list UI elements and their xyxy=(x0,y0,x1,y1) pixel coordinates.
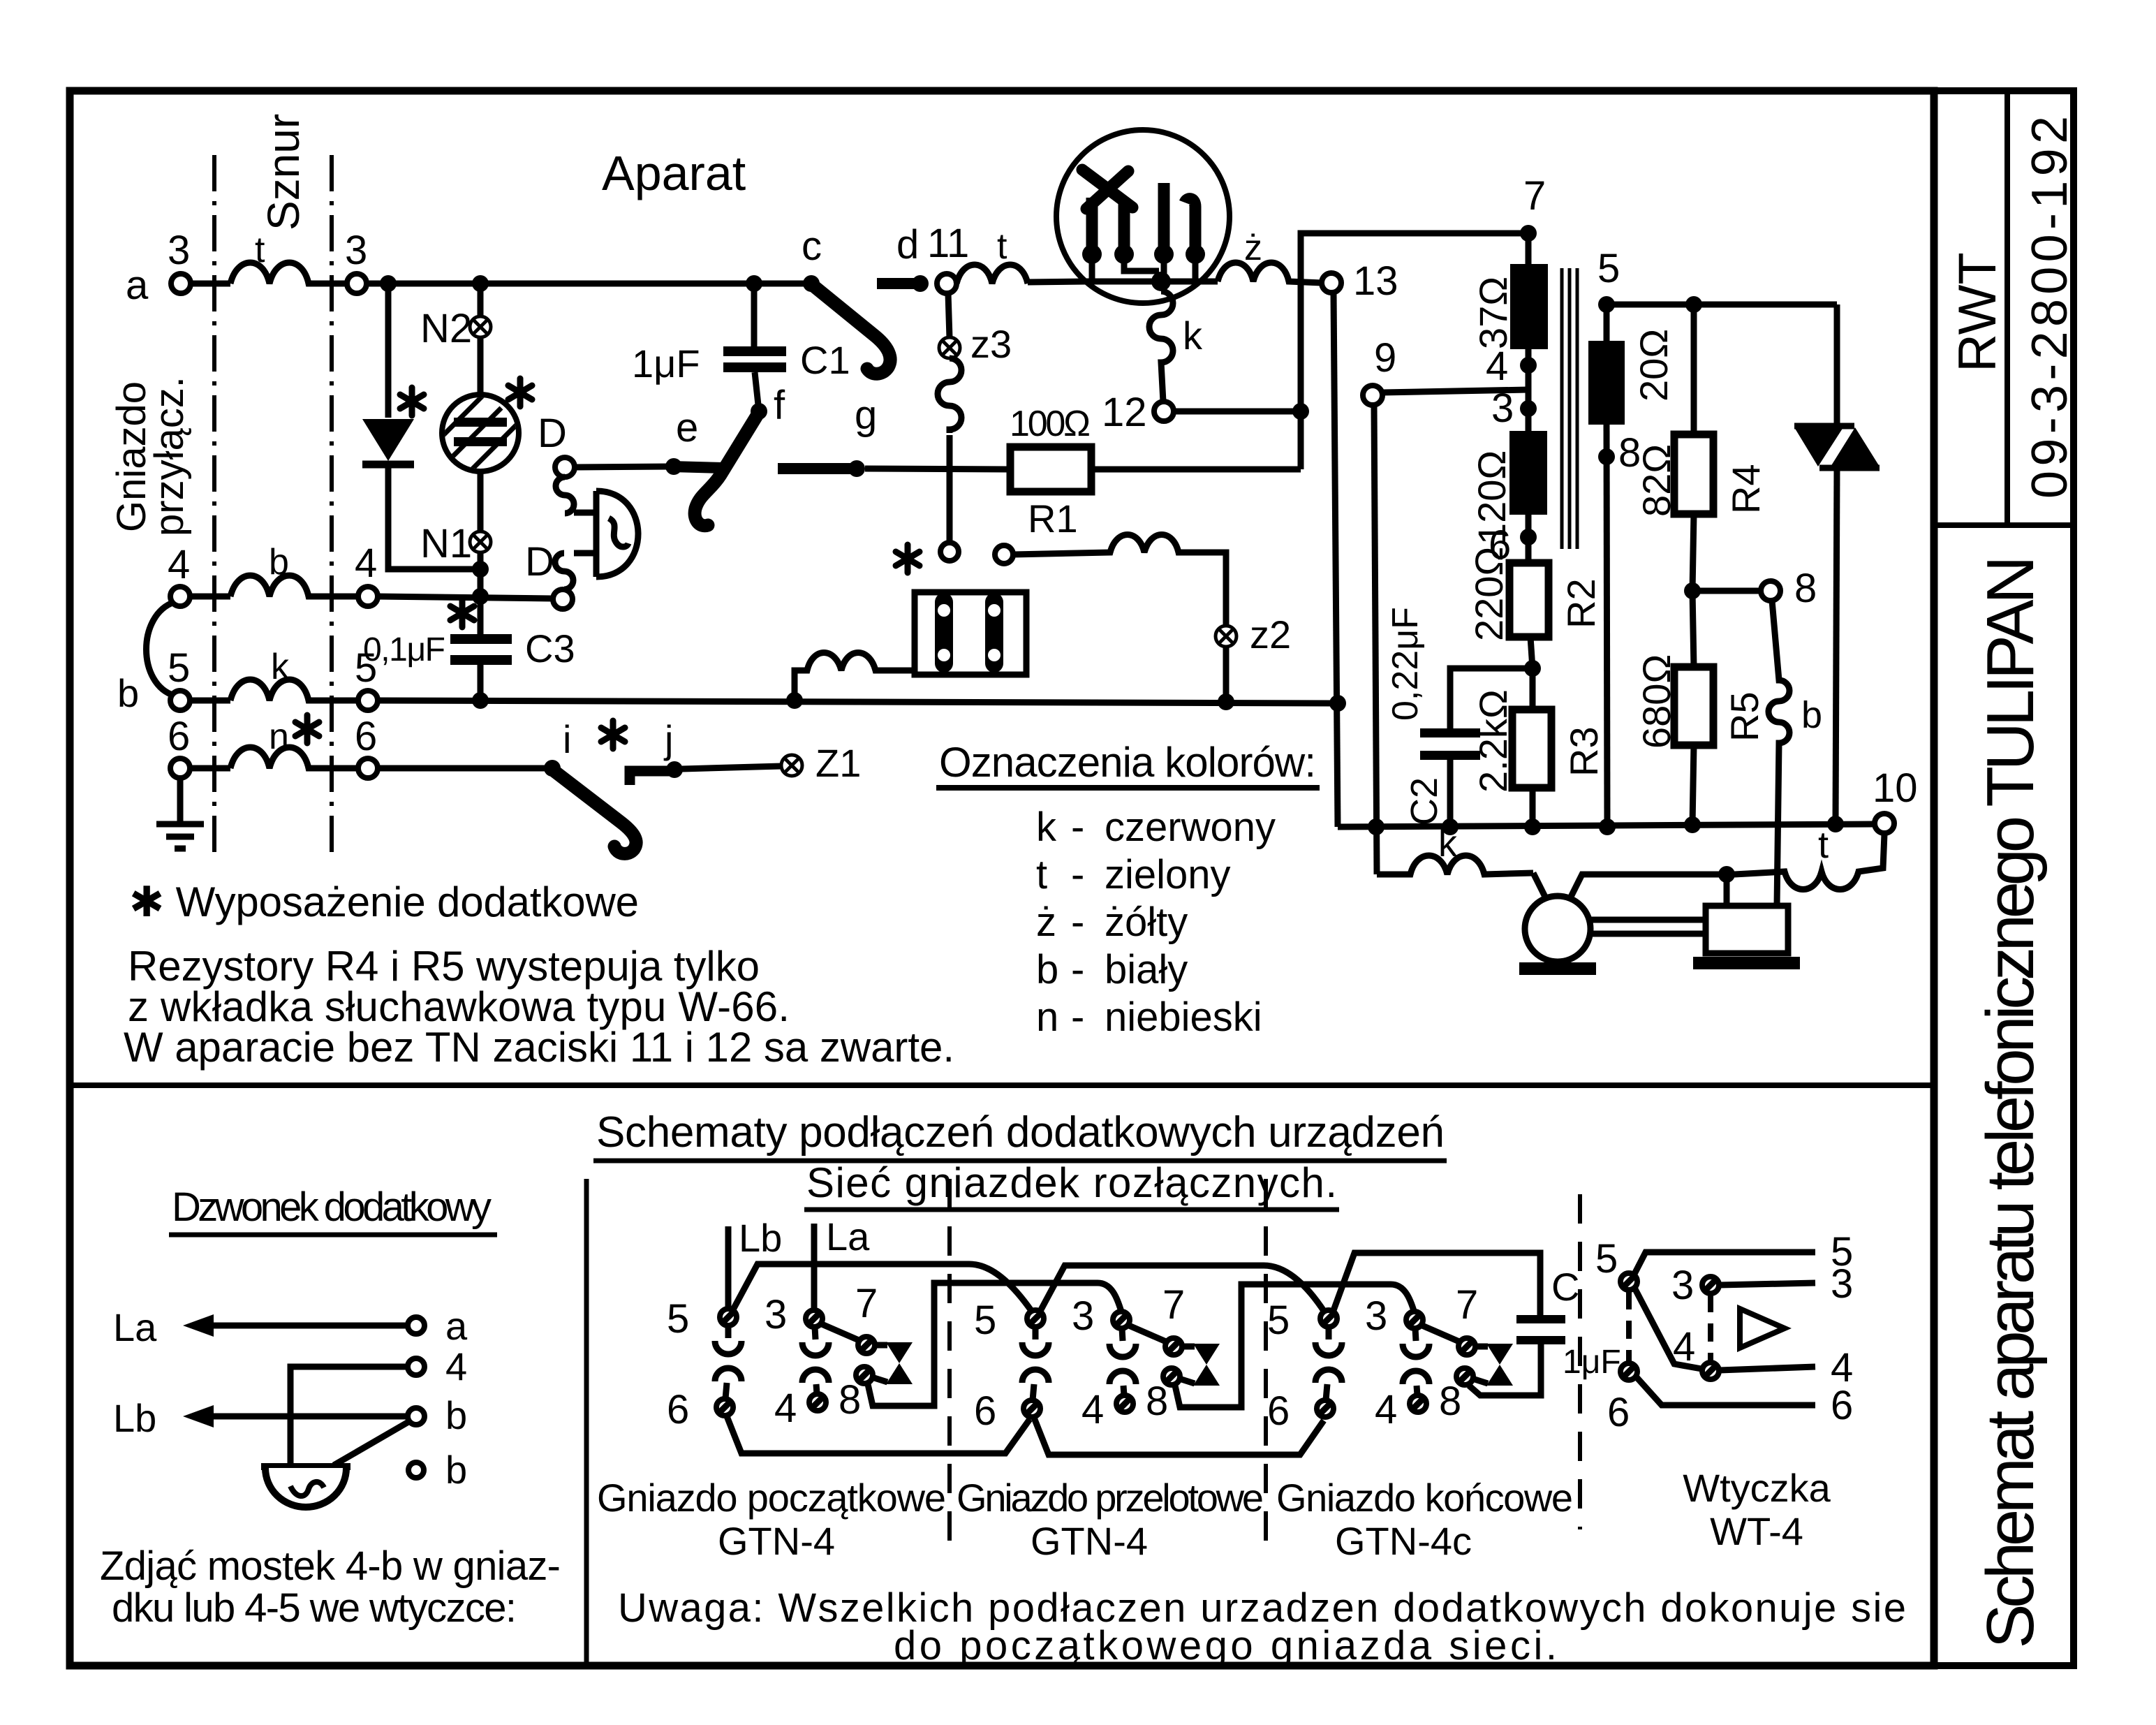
svg-text:t: t xyxy=(255,230,265,270)
title block outer box xyxy=(1934,91,2074,1666)
resistor 20 ohm (secondary winding) xyxy=(1604,304,1610,341)
svg-text:Gniazdo początkowe: Gniazdo początkowe xyxy=(597,1476,946,1520)
plug link 3-4 (dashed) xyxy=(1708,1294,1713,1362)
terminal 9 xyxy=(1363,386,1382,405)
coil squiggle upper D xyxy=(556,477,574,513)
wire R2 to junction xyxy=(1530,637,1533,668)
contact bar d xyxy=(877,278,919,289)
svg-text:3: 3 xyxy=(1491,386,1514,431)
svg-text:37Ω: 37Ω xyxy=(1471,277,1515,349)
svg-text:Wtyczka: Wtyczka xyxy=(1683,1466,1831,1510)
rotary dial circle xyxy=(1056,130,1230,303)
svg-text:8: 8 xyxy=(1794,566,1817,611)
svg-text:z wkładka słuchawkowa typu: z wkładka słuchawkowa typu W-66. xyxy=(128,983,790,1030)
cord squiggle n (row 6) xyxy=(230,747,358,768)
svg-text:b: b xyxy=(269,542,289,582)
node dot N2 branch xyxy=(472,275,489,292)
svg-text:WT-4: WT-4 xyxy=(1710,1509,1803,1553)
svg-text:0,22μF: 0,22μF xyxy=(1385,607,1426,721)
svg-text:100Ω: 100Ω xyxy=(1010,404,1091,444)
section divider xyxy=(70,1082,1934,1088)
wire 12 to node xyxy=(1174,409,1301,415)
diode (wire down) xyxy=(385,284,392,418)
cord squiggle t (to dial) xyxy=(957,265,1028,284)
bottom bus socket2 to socket3 xyxy=(1034,1418,1324,1455)
wire through dial xyxy=(1086,279,1218,285)
svg-text:c: c xyxy=(802,223,822,269)
junction dot row4 cross xyxy=(472,588,489,605)
wire microphone right to t-node xyxy=(1569,874,1719,901)
plug wire 5 xyxy=(1634,1252,1815,1275)
junction 4 xyxy=(1526,349,1532,409)
resistor 120 ohm (winding) xyxy=(1526,409,1532,431)
svg-text:4: 4 xyxy=(1486,344,1508,389)
neon asterisk xyxy=(508,379,532,406)
secondary node 5 xyxy=(1598,296,1615,313)
svg-text:7: 7 xyxy=(1523,173,1546,219)
coil squiggle Z3 xyxy=(938,358,961,433)
plug terminal 3 xyxy=(1702,1277,1719,1293)
resistor R2 220 ohm xyxy=(1509,563,1549,637)
terminal b spare xyxy=(408,1462,424,1478)
capacitor C1 xyxy=(751,284,758,346)
svg-text:5: 5 xyxy=(355,645,377,691)
row 5: terminal left xyxy=(170,691,190,710)
svg-text:5: 5 xyxy=(1597,246,1620,291)
svg-text:Gniazdo końcowe: Gniazdo końcowe xyxy=(1276,1476,1573,1520)
wire D to e xyxy=(575,467,669,467)
transformer core lines xyxy=(1560,268,1564,549)
wire contact to Z2 xyxy=(1013,535,1226,626)
svg-text:R2: R2 xyxy=(1559,578,1603,629)
k wire with squiggle to mic xyxy=(1377,856,1533,874)
neon lamp (hatched circle) xyxy=(431,390,532,489)
terminal 12 xyxy=(1154,402,1174,421)
diode triangle xyxy=(362,419,414,461)
svg-text:Z1: Z1 xyxy=(815,741,861,785)
switch i lever with hook xyxy=(555,772,636,853)
svg-text:R1: R1 xyxy=(1028,497,1078,541)
svg-text:La: La xyxy=(113,1305,157,1349)
svg-text:220Ω: 220Ω xyxy=(1467,547,1511,641)
switch f lever with hook xyxy=(695,413,758,526)
transformer contact asterisk xyxy=(896,545,920,573)
svg-text:n: n xyxy=(269,717,289,757)
node bus (k-node) xyxy=(1338,824,1876,827)
svg-text:D: D xyxy=(525,539,554,585)
svg-text:R5: R5 xyxy=(1722,691,1766,742)
svg-text:3: 3 xyxy=(345,228,367,273)
receiver terminal D lower xyxy=(553,589,573,609)
capacitor C3 xyxy=(450,634,512,644)
svg-text:D: D xyxy=(538,411,567,456)
svg-text:j: j xyxy=(663,717,673,761)
svg-text:Zdjąć mostek 4-b w gniaz-: Zdjąć mostek 4-b w gniaz- xyxy=(100,1543,561,1589)
svg-text:11: 11 xyxy=(927,221,969,266)
svg-text:do początkowego gniazda sieci.: do początkowego gniazda sieci. xyxy=(894,1623,1557,1668)
svg-text:Dzwonek dodatkowy: Dzwonek dodatkowy xyxy=(172,1184,492,1230)
contact bar e xyxy=(672,467,723,468)
bell xyxy=(261,1463,350,1470)
junction 8 (secondary) xyxy=(1607,425,1607,827)
wire Z3 to transformer contact xyxy=(947,435,953,542)
resistor R1 xyxy=(1010,447,1091,492)
dial contact bar 3 xyxy=(1158,183,1170,249)
plug WT-4: terminal 5 xyxy=(1620,1273,1637,1290)
svg-text:N2: N2 xyxy=(420,306,472,351)
svg-text:C1: C1 xyxy=(800,338,850,382)
dash-dot separator line left xyxy=(212,155,216,853)
svg-text:b: b xyxy=(1801,694,1822,736)
svg-text:Aparat: Aparat xyxy=(602,146,746,200)
svg-text:4: 4 xyxy=(168,542,190,587)
coil squiggle k (dial to 12) xyxy=(1149,291,1173,402)
svg-text:09-3-2800-192: 09-3-2800-192 xyxy=(2022,116,2078,499)
svg-text:k: k xyxy=(1183,314,1203,358)
svg-text:12: 12 xyxy=(1102,390,1147,435)
terminal 8 xyxy=(1761,581,1780,601)
wire b to bell xyxy=(334,1422,408,1465)
plug wire 3 xyxy=(1720,1283,1815,1285)
svg-text:Oznaczenia kolorów:: Oznaczenia kolorów: xyxy=(939,739,1316,786)
svg-text:Schematy podłączeń dodatkowych: Schematy podłączeń dodatkowych urządzeń xyxy=(596,1108,1445,1157)
bridge arc 4-5 (external strap) xyxy=(147,602,175,696)
bus row 5 xyxy=(378,700,1338,703)
svg-text:k: k xyxy=(271,647,290,687)
top bus socket2 to socket3 xyxy=(1040,1265,1325,1313)
dial legs to wire xyxy=(1092,260,1195,281)
terminal 6 right xyxy=(358,758,378,778)
svg-text:Gniazdo przelotowe: Gniazdo przelotowe xyxy=(957,1476,1264,1520)
resistor R4 82 ohm xyxy=(1691,304,1697,434)
svg-text:5: 5 xyxy=(1595,1236,1618,1282)
arrow Lb xyxy=(202,1414,406,1420)
wire row 6 to switch i xyxy=(378,765,552,772)
title block divider vertical xyxy=(2004,91,2010,525)
wire 9 down across bus to k-wire xyxy=(1374,405,1377,874)
svg-text:Schemat aparatu telefonicznego: Schemat aparatu telefonicznego TULIPAN xyxy=(1973,555,2048,1648)
cord squiggle b (terminal 8 down) xyxy=(1769,601,1789,906)
contact bar j xyxy=(630,771,676,785)
mid wire socket2-8 to socket3-3 xyxy=(1175,1284,1415,1407)
svg-text:GTN-4: GTN-4 xyxy=(718,1519,835,1563)
socket 1 GTN-4 xyxy=(667,1281,913,1432)
wire 9 to resistor chain xyxy=(1382,390,1528,392)
svg-text:C: C xyxy=(1551,1265,1579,1309)
wire 4 to bell xyxy=(290,1367,408,1465)
capacitor C (socket 3) xyxy=(1516,1315,1565,1323)
svg-text:Sieć gniazdek rozłącznych.: Sieć gniazdek rozłącznych. xyxy=(806,1159,1337,1206)
junction 6 xyxy=(1526,515,1532,563)
svg-text:R3: R3 xyxy=(1562,726,1606,777)
svg-text:4: 4 xyxy=(355,541,377,586)
svg-text:W aparacie bez TN zaciski 1: W aparacie bez TN zaciski 11 i 12 sa zwa… xyxy=(124,1024,954,1071)
svg-text:z3: z3 xyxy=(970,322,1012,366)
svg-text:1μF: 1μF xyxy=(1563,1344,1621,1381)
capacitor C2 xyxy=(1450,668,1533,728)
wire node5 to varistor branch xyxy=(1607,302,1837,308)
dashed separator socket 3/plug xyxy=(1578,1194,1582,1529)
svg-text:a: a xyxy=(126,263,149,308)
wire C3 to row5 xyxy=(478,665,484,700)
wire Z2 to bus5 xyxy=(1223,647,1230,702)
mid wire socket1-8 to socket2-3 xyxy=(868,1283,1121,1406)
node line (R1/12/7) xyxy=(1301,233,1528,469)
plug wire 6 xyxy=(1637,1377,1815,1405)
terminal 3 (socket side) xyxy=(171,274,191,293)
svg-text:t: t xyxy=(997,226,1007,267)
svg-text:82Ω: 82Ω xyxy=(1634,444,1678,517)
svg-text:RWT: RWT xyxy=(1948,252,2007,372)
microphone xyxy=(1525,896,1590,962)
terminal 4 (dzwonek) xyxy=(408,1358,424,1375)
socket3 riser to capacitor C xyxy=(1333,1253,1540,1315)
dial pulse contacts (X symbol with legs) xyxy=(1082,170,1132,209)
terminal 10 xyxy=(1875,814,1894,833)
wire into dial xyxy=(1028,281,1086,282)
dial contact bar 4 (hooked) xyxy=(1185,199,1195,249)
wire 13 down to bus xyxy=(1334,293,1338,827)
plug terminal 6 xyxy=(1620,1363,1637,1380)
svg-text:ż: ż xyxy=(1244,228,1262,268)
wire row a xyxy=(191,281,230,287)
diode bar xyxy=(362,461,414,469)
varistor branch xyxy=(1834,304,1840,427)
svg-text:3: 3 xyxy=(1671,1263,1694,1308)
svg-text:t: t xyxy=(1818,824,1829,866)
svg-text:Rezystory R4 i R5 wystepuja: Rezystory R4 i R5 wystepuja tylko xyxy=(128,943,760,990)
stub t-node to receiver xyxy=(1724,874,1730,906)
resistor R5 680 ohm xyxy=(1692,591,1694,667)
wire j to Z1 xyxy=(682,766,781,769)
svg-text:b: b xyxy=(117,671,139,715)
svg-text:g: g xyxy=(855,392,877,438)
junction 3 xyxy=(1520,400,1537,417)
wire to microphone left xyxy=(1533,873,1547,901)
svg-text:z2: z2 xyxy=(1250,612,1291,656)
svg-text:3: 3 xyxy=(168,228,190,273)
svg-text:Lb: Lb xyxy=(113,1396,156,1440)
capacitor C to terminal 8 wire xyxy=(1469,1344,1541,1395)
cord squiggle k (row 5) xyxy=(230,680,358,700)
svg-text:2.2kΩ: 2.2kΩ xyxy=(1471,689,1515,793)
svg-text:a: a xyxy=(445,1304,468,1348)
wire junction to terminal 8 xyxy=(1692,588,1761,594)
handset bar (double line) xyxy=(1590,917,1706,923)
svg-text:Sznur: Sznur xyxy=(258,114,309,230)
svg-text:6: 6 xyxy=(1607,1390,1630,1435)
wire diode to junction xyxy=(388,464,480,569)
contact bar g xyxy=(778,463,857,474)
svg-text:R4: R4 xyxy=(1724,464,1768,514)
transformer contact circle left xyxy=(940,543,959,561)
svg-text:C2: C2 xyxy=(1403,777,1445,825)
lamp Z3 xyxy=(948,293,950,338)
dashed separator socket 2/3 xyxy=(1264,1179,1268,1547)
svg-text:b: b xyxy=(445,1448,467,1492)
node dot C1 branch xyxy=(746,275,762,292)
lamp Z2 xyxy=(1216,626,1236,647)
terminal a xyxy=(408,1317,424,1334)
wire row 4 to D xyxy=(378,596,553,599)
plug terminal 4 xyxy=(1702,1363,1719,1379)
svg-text:Lb: Lb xyxy=(739,1216,782,1260)
svg-text:3: 3 xyxy=(1831,1261,1853,1307)
terminal 5 right xyxy=(358,691,378,710)
receiver capsule xyxy=(1706,906,1788,953)
bottom bus socket1 to socket2 xyxy=(727,1416,1030,1453)
wire R4 to junction xyxy=(1692,514,1694,591)
row 6: terminal left xyxy=(170,758,190,778)
svg-text:6: 6 xyxy=(1831,1383,1853,1428)
svg-text:20Ω: 20Ω xyxy=(1632,329,1676,402)
lamp Z1 xyxy=(781,755,802,776)
terminal 4 right xyxy=(358,587,378,606)
node dot diode branch xyxy=(380,275,397,292)
svg-text:przyłącz.: przyłącz. xyxy=(147,376,192,536)
svg-text:1μF: 1μF xyxy=(632,342,700,386)
winding 2 xyxy=(985,602,1003,663)
svg-text:13: 13 xyxy=(1353,258,1398,304)
terminal 13 xyxy=(1322,273,1341,293)
svg-text:C3: C3 xyxy=(525,626,575,670)
svg-text:e: e xyxy=(676,405,698,450)
svg-text:dku lub 4-5 we wtyczce:: dku lub 4-5 we wtyczce: xyxy=(112,1585,517,1631)
svg-text:10: 10 xyxy=(1873,765,1918,811)
cord squiggle z (dial to 13) xyxy=(1218,263,1322,283)
svg-text:6: 6 xyxy=(168,714,190,759)
svg-text:d: d xyxy=(896,222,919,267)
bottom vertical divider xyxy=(584,1179,589,1666)
switch c lever with hook xyxy=(814,286,890,374)
terminal b xyxy=(408,1408,424,1425)
wire La (network) xyxy=(811,1224,818,1310)
wire N1 down through row4 to C3 xyxy=(478,552,484,634)
winding squiggle to bus5 xyxy=(795,653,915,701)
terminal 3 (aparat side) xyxy=(347,274,367,293)
svg-text:6: 6 xyxy=(355,714,377,759)
svg-text:k-czerwony: k-czerwony xyxy=(1036,805,1276,850)
varistor symbol xyxy=(1794,427,1843,467)
plug triangle xyxy=(1740,1309,1785,1348)
receiver earpiece xyxy=(574,491,638,577)
transformer contact circle right xyxy=(995,545,1013,564)
wire row a to switch c xyxy=(367,281,811,287)
svg-text:680Ω: 680Ω xyxy=(1634,654,1678,749)
lamp N2 xyxy=(478,284,484,316)
svg-text:i: i xyxy=(563,717,571,761)
plug link 5-6 (dashed) xyxy=(1626,1291,1632,1362)
wire N2 to neon xyxy=(478,337,484,397)
svg-text:La: La xyxy=(826,1214,870,1258)
resistor 37 ohm (winding) xyxy=(1526,233,1532,264)
ground symbol xyxy=(177,778,184,821)
arrow La xyxy=(202,1323,408,1329)
socket 2 GTN-4 xyxy=(974,1282,1220,1434)
svg-text:✱ Wyposażenie dodatkowe: ✱ Wyposażenie dodatkowe xyxy=(129,879,639,925)
cord squiggle b (row 4) xyxy=(190,594,230,600)
dashed separator socket 1/2 xyxy=(947,1179,952,1547)
svg-text:N1: N1 xyxy=(420,521,472,566)
svg-text:5: 5 xyxy=(168,645,190,691)
svg-text:b: b xyxy=(445,1393,467,1437)
svg-text:9: 9 xyxy=(1374,335,1396,381)
diode asterisk xyxy=(400,388,424,416)
terminal 11 xyxy=(937,274,957,293)
svg-text:f: f xyxy=(774,383,785,428)
row 4: terminal left xyxy=(170,587,190,606)
junction dot diode join xyxy=(472,561,489,578)
lamp N1 xyxy=(470,531,491,552)
main border frame xyxy=(70,91,1934,1666)
title block divider horizontal xyxy=(1934,522,2074,528)
svg-text:4: 4 xyxy=(445,1344,467,1388)
socket 3 GTN-4c xyxy=(1267,1282,1513,1434)
wire R1 to node line xyxy=(1091,467,1301,473)
winding 1 xyxy=(935,602,953,663)
plug wire 4 xyxy=(1720,1367,1815,1370)
dash-dot separator line right xyxy=(330,155,334,853)
induction coil unit (transformer) xyxy=(915,592,1026,675)
svg-text:GTN-4c: GTN-4c xyxy=(1335,1519,1472,1563)
wire Lb (network) xyxy=(725,1226,732,1307)
top bus socket1 to socket2 xyxy=(732,1264,1032,1312)
receiver terminal D upper xyxy=(555,457,575,477)
wire g to R1 xyxy=(865,469,1010,469)
coil squiggle lower D xyxy=(555,553,573,589)
cord squiggle t (row a) xyxy=(230,263,347,284)
t squiggle wire to 10 xyxy=(1734,834,1884,890)
plug switch blade 5-4 xyxy=(1634,1288,1701,1369)
wire neon to N1 xyxy=(478,471,484,531)
resistor R3 2.2k xyxy=(1530,668,1536,710)
svg-text:GTN-4: GTN-4 xyxy=(1031,1519,1148,1563)
